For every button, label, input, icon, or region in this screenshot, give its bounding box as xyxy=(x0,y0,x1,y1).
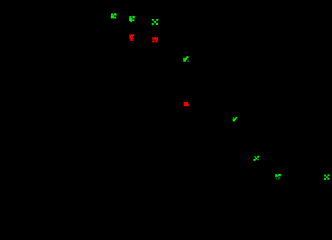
atom label O3 (red, mid-chain oxygen) xyxy=(184,102,189,107)
atom label O1 (red, carbonyl oxygen) xyxy=(129,34,134,41)
atom label F7 (green, butterfly glyph near chain end) xyxy=(275,174,281,180)
atom label F8 (green, right edge X glyph) xyxy=(324,174,329,180)
atom label F2 (green, above carbonyl) xyxy=(129,16,135,22)
atom label F3 (green, right of cluster) xyxy=(152,19,159,25)
atom label F4 (green, chain position 1) xyxy=(183,56,189,62)
atom label F5 (green, chain position 2) xyxy=(233,117,238,122)
atom label O2 (red, ester oxygen, arrow-like glyph) xyxy=(152,37,158,42)
atom label F1 (green, top-left of trifluoro cluster) xyxy=(111,13,117,18)
atom label F6 (green, chain position 3) xyxy=(253,156,259,161)
